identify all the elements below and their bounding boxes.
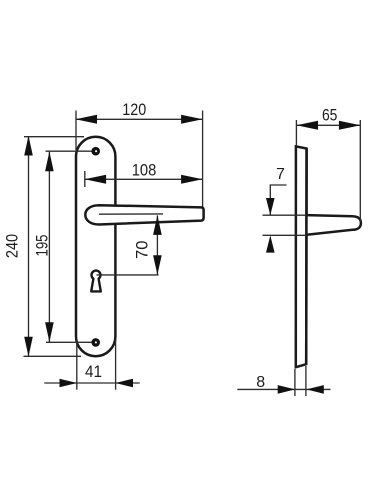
dimension 65 arrow left: [297, 121, 319, 130]
dimension 195 line: [48, 152, 50, 342]
dimension 195 extension line bottom: [46, 341, 92, 343]
dimension 240 arrow down: [24, 337, 33, 357]
dimension 41 arrow right: [116, 379, 134, 388]
svg-text:65: 65: [322, 107, 338, 125]
svg-text:108: 108: [132, 162, 157, 180]
dimension 7 leader: [270, 185, 286, 215]
dimension 240 line: [28, 136, 30, 356]
dimension 65 extension line left: [295, 120, 297, 146]
handle inner contour line: [99, 213, 163, 215]
dimension 7 extension line top: [263, 214, 307, 216]
dimension 65 extension line right: [359, 120, 361, 222]
dimension 7 extension line bottom: [263, 234, 307, 236]
side view strip right edge (over handle root): [305, 149, 308, 365]
dimension 108 extension tick left: [84, 171, 86, 187]
svg-text:120: 120: [122, 101, 146, 119]
dimension 108 arrow right: [181, 175, 203, 184]
dimension 7 arrow up: [266, 235, 275, 252]
dimension 8 arrow left: [278, 385, 296, 394]
dimension 70 arrow down: [153, 255, 162, 275]
keyhole: [91, 271, 101, 292]
bottom screw hole: [91, 338, 100, 347]
dimension 120 arrow right: [181, 115, 203, 124]
svg-text:8: 8: [256, 374, 265, 391]
dimension 7 arrow down: [266, 198, 275, 215]
dimension 65 arrow right: [339, 121, 361, 130]
top screw hole: [91, 147, 100, 156]
dimension 120 line: [76, 118, 203, 120]
dimension 240 arrow up: [24, 136, 33, 156]
dimension 240 extension line bottom: [24, 355, 82, 357]
dimension 8 extension line right: [305, 366, 307, 396]
dimension 195 arrow up: [45, 152, 54, 172]
dimension 195 arrow down: [45, 322, 54, 342]
dimension 108 line: [85, 178, 203, 180]
dimension 195 extension line top: [46, 150, 92, 152]
dimension 120 extension line left: [75, 111, 77, 151]
dimension 41 line: [44, 382, 139, 384]
svg-text:195: 195: [34, 235, 52, 257]
dimension 41 arrow left: [60, 379, 78, 388]
dimension 8 extension line left: [294, 369, 296, 396]
svg-text:7: 7: [276, 166, 285, 183]
dimension 70 line: [156, 215, 158, 275]
dimension 8 line: [237, 388, 330, 390]
dimension 65 line: [297, 124, 361, 126]
side view lever handle: [307, 215, 361, 235]
svg-text:41: 41: [85, 363, 102, 381]
dimension 41 extension line left: [76, 340, 78, 390]
front view backplate: [76, 137, 115, 356]
dimension 8 arrow right: [306, 385, 324, 394]
dimension 240 extension line top: [24, 136, 84, 138]
dimension 120 arrow left: [76, 115, 98, 124]
svg-text:240: 240: [4, 234, 22, 258]
dimension 70 extension line bottom (keyhole axis): [97, 274, 159, 276]
side view backplate strip: [296, 146, 307, 367]
lever handle front view: [85, 205, 203, 224]
dimension 41 extension line right: [115, 340, 117, 390]
svg-text:70: 70: [134, 241, 152, 259]
dimension 108 arrow left: [85, 175, 107, 184]
dimension 120/108 extension line right: [202, 111, 204, 208]
dimension 70 arrow up: [153, 215, 162, 235]
